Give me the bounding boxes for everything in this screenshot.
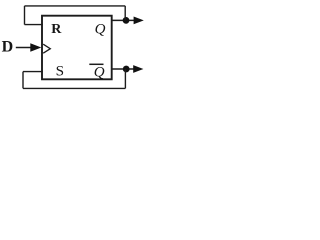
wire feedback left up to S bbox=[22, 72, 24, 89]
svg-text:D: D bbox=[2, 38, 14, 55]
clock trigger triangle on box edge bbox=[43, 44, 50, 53]
latch box U1 bbox=[42, 16, 112, 80]
junction dot at Q bbox=[123, 17, 130, 24]
overline of Qbar bbox=[89, 63, 103, 65]
arrowhead on Qbar output bbox=[133, 65, 143, 73]
wire feedback left down to R bbox=[24, 6, 26, 25]
wire into S input bbox=[23, 71, 43, 73]
svg-text:Q: Q bbox=[94, 65, 105, 81]
arrowhead on Q output bbox=[134, 17, 144, 25]
svg-text:R: R bbox=[51, 22, 62, 37]
wire Q output bbox=[112, 19, 136, 21]
wire feedback Q up bbox=[124, 6, 126, 21]
svg-text:S: S bbox=[56, 62, 64, 79]
wire feedback top horizontal bbox=[25, 5, 126, 7]
arrowhead on D input bbox=[30, 43, 41, 51]
wire feedback Qbar down bbox=[124, 69, 126, 88]
background bbox=[0, 0, 152, 101]
wire into R input bbox=[25, 24, 43, 26]
wire D input bbox=[16, 47, 32, 49]
svg-text:Q: Q bbox=[95, 21, 106, 37]
junction dot at Qbar bbox=[123, 66, 130, 73]
wire feedback bottom horizontal bbox=[23, 87, 125, 89]
wire Qbar output bbox=[112, 68, 136, 70]
